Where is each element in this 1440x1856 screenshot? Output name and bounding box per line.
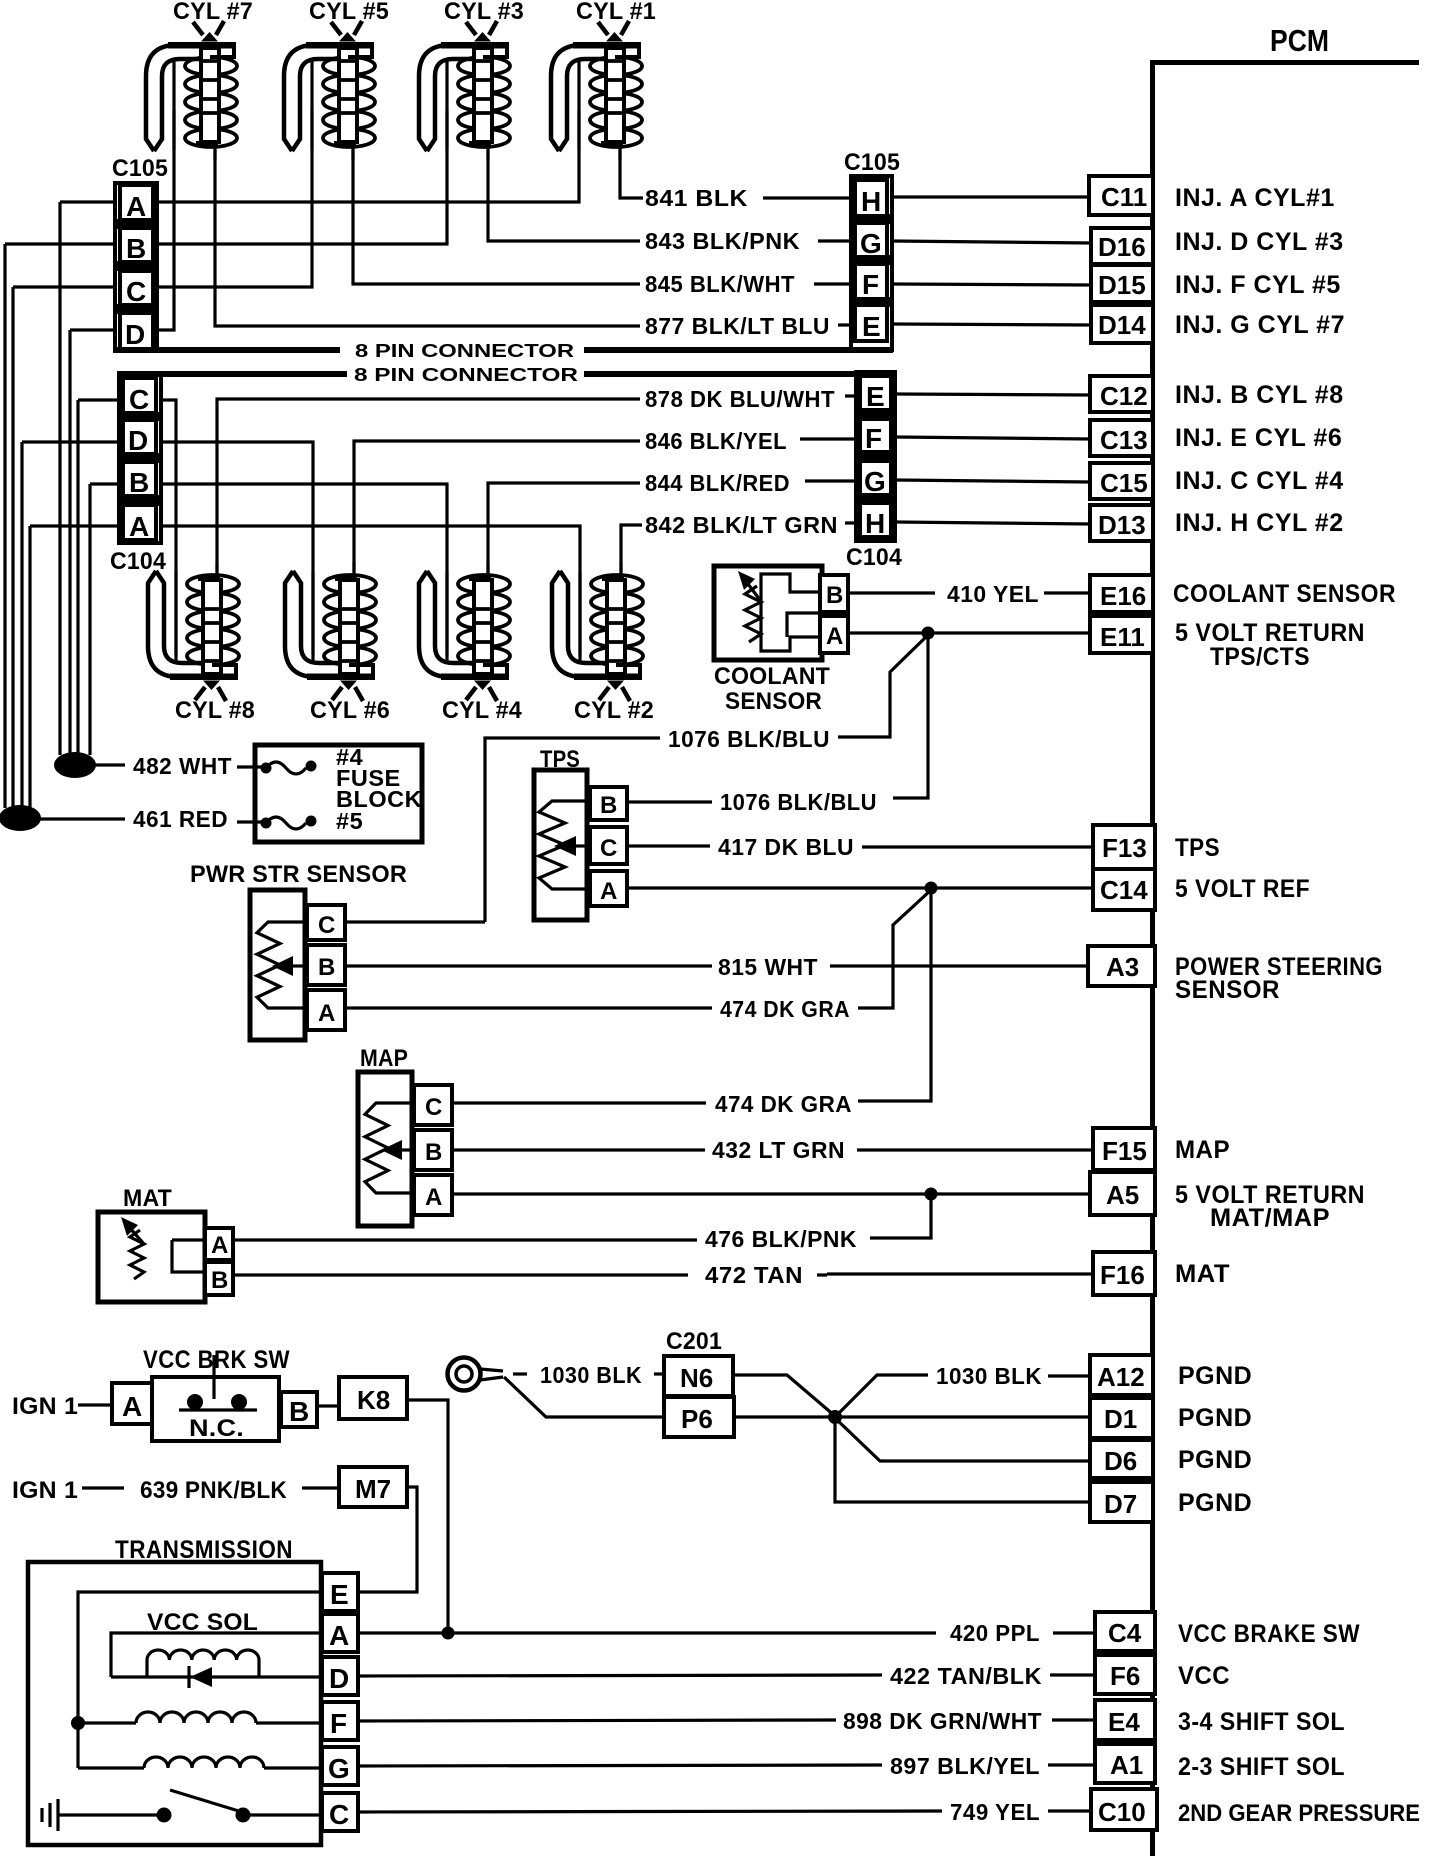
pin C11 [1089,176,1153,215]
svg-text:C11: C11 [1101,182,1147,212]
injector CYL #7 [146,21,237,160]
TPS pin B [590,787,627,820]
svg-text:639 PNK/BLK: 639 PNK/BLK [140,1477,287,1504]
C201 pin N6 [664,1356,733,1396]
svg-text:842 BLK/LT GRN: 842 BLK/LT GRN [645,512,838,538]
svg-text:PWR STR SENSOR: PWR STR SENSOR [190,861,407,888]
svg-text:MAT/MAP: MAT/MAP [1210,1204,1330,1232]
MAP pin B [414,1130,452,1170]
pin D14 [1091,305,1153,343]
switch contact dots [187,1394,203,1410]
svg-text:F: F [330,1708,347,1739]
svg-text:A: A [122,1391,142,1422]
svg-text:C12: C12 [1100,381,1148,411]
wire 461 RED [40,817,125,820]
svg-text:845 BLK/WHT: 845 BLK/WHT [645,271,795,297]
wire 842 BLK/LT GRN [621,523,857,572]
svg-text:#5: #5 [336,808,363,834]
svg-text:IGN 1: IGN 1 [12,1477,78,1504]
svg-text:2ND GEAR PRESSURE: 2ND GEAR PRESSURE [1178,1800,1420,1827]
svg-text:F16: F16 [1100,1260,1145,1290]
wire 841 BLK [620,150,851,198]
MAP sensor box [358,1072,412,1226]
wire C104-E to C12 [895,394,1090,395]
MAT sensor box [98,1212,205,1302]
svg-text:1076 BLK/BLU: 1076 BLK/BLU [668,726,830,752]
C201 pin P6 [664,1397,734,1437]
connector C105 right half [851,176,892,350]
injector CYL #5 [284,21,375,160]
svg-text:G: G [328,1753,350,1784]
pin D6 [1090,1440,1153,1478]
svg-text:B: B [289,1396,309,1427]
pin D16 [1091,228,1153,264]
transmission pin F [322,1702,358,1740]
svg-text:A: A [425,1184,443,1211]
svg-text:B: B [126,233,146,264]
svg-text:8 PIN CONNECTOR: 8 PIN CONNECTOR [354,364,578,385]
PWR STR pin B [307,945,345,985]
transmission pin D [322,1657,358,1695]
wire C105-E to D14 [892,324,1091,325]
wire C105-F to D15 [892,284,1091,285]
wire coolant A to E11 5 volt return [848,631,1090,634]
svg-text:CYL #2: CYL #2 [574,697,654,724]
MAT plug outline [172,1240,205,1272]
injector CYL #6 [285,562,376,701]
wire ring to P6 [504,1377,664,1417]
svg-text:INJ. H CYL #2: INJ. H CYL #2 [1175,509,1344,537]
transmission pin G [322,1747,358,1785]
svg-text:E11: E11 [1100,622,1145,652]
splice ball 482 WHT [54,752,96,778]
svg-text:C: C [425,1094,443,1121]
wire C104-C row to CYL#8 elbow [78,400,176,655]
pin C13 [1090,420,1153,456]
svg-text:N.C.: N.C. [189,1415,244,1442]
switch contact bar [179,1408,257,1411]
coolant sensor pin A [820,616,848,653]
wire C104-D row to CYL#6 elbow [22,442,313,655]
wire PWR STR C to 1076 riser [345,920,485,923]
svg-text:749 YEL: 749 YEL [950,1799,1040,1825]
MAP pin A [414,1175,452,1215]
svg-text:472 TAN: 472 TAN [705,1262,803,1288]
svg-text:D: D [125,319,145,350]
wire 1076 BLK/BLU upper [485,738,660,922]
wire C104-B to upper splice [88,484,91,755]
svg-text:3-4 SHIFT SOL: 3-4 SHIFT SOL [1178,1708,1345,1736]
injector CYL #1 [551,21,642,160]
pin D13 [1090,505,1153,541]
svg-text:C: C [318,912,336,939]
junction dot C14 wire [925,882,938,895]
injector CYL #3 [419,21,510,160]
wire ground to switch [58,1813,164,1816]
svg-text:420 PPL: 420 PPL [950,1620,1040,1646]
PWR STR pin C [307,905,345,940]
svg-text:MAT: MAT [123,1185,172,1212]
svg-text:A: A [826,623,844,650]
pin E16 [1090,575,1153,612]
svg-text:D: D [329,1663,349,1694]
svg-text:A: A [329,1620,349,1651]
8 pin connector row 1 [115,347,893,353]
pin D15 [1091,265,1153,302]
svg-text:B: B [211,1267,229,1294]
coolant sensor box [714,566,822,660]
transmission pin C [322,1793,358,1831]
wire junction to 1030 BLK A12 [835,1375,928,1417]
wire E to left rail [78,1592,322,1768]
wire C104-F to C13 [895,437,1090,439]
svg-text:B: B [826,582,844,609]
wire C104-G to C15 [895,480,1090,482]
svg-text:CYL #5: CYL #5 [309,0,389,25]
wire TPS A / 5 volt ref to C14 [627,886,1093,889]
svg-text:G: G [860,228,882,259]
junction dot A5 wire [925,1188,938,1201]
svg-text:E: E [330,1579,349,1610]
svg-text:D1: D1 [1104,1404,1137,1434]
coolant sensor plug outline [761,574,822,651]
svg-text:422 TAN/BLK: 422 TAN/BLK [890,1663,1042,1689]
svg-text:C104: C104 [846,544,902,571]
pin A5 [1090,1172,1155,1215]
svg-text:8 PIN CONNECTOR: 8 PIN CONNECTOR [355,340,574,361]
svg-text:INJ. C CYL #4: INJ. C CYL #4 [1175,467,1344,495]
svg-text:841 BLK: 841 BLK [645,185,748,211]
pin F13 [1093,825,1155,869]
svg-text:A5: A5 [1106,1180,1139,1210]
transmission pin E [322,1573,358,1611]
splice ball 461 RED [0,805,41,831]
svg-text:410 YEL: 410 YEL [947,581,1039,607]
wire C104-D to lower splice [20,442,23,808]
wire 844 BLK/RED [488,481,857,572]
svg-text:F15: F15 [1102,1136,1147,1166]
wire C104-H to D13 [895,522,1090,524]
wire C105-A row to CYL#1 elbow [60,110,579,202]
svg-text:C4: C4 [1108,1618,1142,1648]
wire 474 DK GRA upper [345,1006,712,1009]
wire IGN1 to A [78,1403,112,1406]
pin A1 [1095,1744,1155,1783]
PWR STR resistor [257,922,303,1008]
wire IGN1 dash [82,1486,124,1489]
svg-text:F13: F13 [1102,833,1147,863]
wire MAP A / 5 volt return to A5 [452,1192,1090,1195]
MAP resistor [365,1103,410,1193]
TPS pin C [590,827,627,864]
pin E11 [1090,616,1153,653]
svg-text:SENSOR: SENSOR [725,688,822,715]
wire 845 BLK/WHT [353,150,851,284]
relay K8 box [339,1377,407,1419]
wire C105-C row to CYL#5 elbow [13,110,312,287]
pin A12 [1090,1355,1153,1395]
wire 846 BLK/YEL [354,439,857,572]
svg-text:PCM: PCM [1270,23,1329,58]
svg-text:INJ. G CYL #7: INJ. G CYL #7 [1175,311,1345,339]
svg-text:D14: D14 [1098,310,1146,340]
wire 482 WHT [95,763,125,766]
fuse #4 [261,761,317,775]
svg-text:1030 BLK: 1030 BLK [936,1363,1042,1389]
2-3 shift solenoid coil [144,1757,264,1768]
svg-text:MAP: MAP [1175,1136,1230,1164]
ground symbol [42,1799,58,1831]
svg-text:846 BLK/YEL: 846 BLK/YEL [645,428,787,454]
svg-text:877 BLK/LT BLU: 877 BLK/LT BLU [645,313,830,339]
PWR STR wiper arrow [272,956,293,976]
svg-text:D7: D7 [1104,1489,1137,1519]
wire 472 TAN [233,1273,688,1276]
VCC BRK SW pin A [112,1383,152,1424]
svg-text:B: B [318,954,336,981]
wire to F coil [78,1721,136,1724]
svg-text:G: G [864,466,886,497]
VCC SOL coil [147,1650,259,1677]
svg-text:N6: N6 [680,1363,713,1393]
coolant sensor pin B [820,575,848,612]
svg-text:K8: K8 [357,1385,390,1415]
TPS box [534,770,587,920]
transmission box [28,1562,321,1845]
svg-text:C: C [126,276,146,307]
junction dot E11 wire [922,627,935,640]
svg-text:897 BLK/YEL: 897 BLK/YEL [890,1753,1040,1779]
svg-text:E: E [866,381,885,412]
svg-text:417 DK BLU: 417 DK BLU [718,834,854,860]
wire junction to D6 [835,1418,1090,1461]
svg-text:C: C [600,835,618,862]
wire junction to D7 [835,1417,1090,1502]
PCM boundary [1150,60,1419,1856]
wire C104-A to lower splice [28,526,31,808]
svg-text:INJ. F CYL #5: INJ. F CYL #5 [1175,271,1341,299]
svg-text:P6: P6 [681,1404,713,1434]
wire A to solenoid loop [111,1633,322,1677]
svg-text:MAP: MAP [360,1045,408,1072]
svg-text:C10: C10 [1098,1797,1146,1827]
svg-text:VCC BRK SW: VCC BRK SW [143,1346,290,1374]
wire 877 BLK/LT BLU [215,150,851,326]
svg-text:F: F [862,269,879,300]
svg-text:A: A [129,511,149,542]
svg-text:1030 BLK: 1030 BLK [540,1362,642,1388]
MAP wiper arrow [381,1140,402,1160]
svg-text:CYL #3: CYL #3 [444,0,524,25]
transmission pin A [322,1614,358,1652]
MAT pin A [205,1228,233,1260]
wire C105-D to upper splice [68,330,71,755]
wire 843 BLK/PNK [488,150,851,241]
svg-text:CYL #6: CYL #6 [310,697,390,724]
svg-text:CYL #7: CYL #7 [173,0,253,25]
svg-text:A: A [126,191,146,222]
svg-text:D13: D13 [1098,510,1146,540]
svg-text:1076 BLK/BLU: 1076 BLK/BLU [720,789,877,815]
connector C105 left half [115,183,157,351]
wire 878 DK BLU/WHT [217,396,857,572]
wire N6 to ground junction [733,1375,835,1416]
svg-text:A12: A12 [1097,1362,1145,1392]
svg-text:474 DK GRA: 474 DK GRA [720,996,850,1022]
pin F15 [1093,1128,1155,1170]
svg-text:461 RED: 461 RED [133,806,228,832]
wire ring to 1030 BLK N6 [513,1372,527,1375]
svg-text:A: A [318,1000,336,1027]
2nd gear switch contact dots [157,1808,172,1823]
svg-text:COOLANT: COOLANT [714,663,830,690]
svg-text:COOLANT SENSOR: COOLANT SENSOR [1173,580,1396,608]
pin C10 [1091,1789,1157,1830]
svg-text:TPS: TPS [1175,834,1220,862]
svg-text:A1: A1 [1110,1750,1143,1780]
wire C105-H to C11 [892,195,1089,198]
svg-text:A: A [211,1232,229,1259]
pin D7 [1090,1482,1153,1522]
8 pin connector row 2 [119,371,893,377]
MAT thermistor [130,1230,144,1279]
injector CYL #4 [419,562,510,701]
injector CYL #2 [552,562,643,701]
svg-text:E: E [862,311,881,342]
pin E4 [1095,1700,1155,1740]
relay M7 box [339,1467,407,1507]
svg-text:B: B [425,1139,443,1166]
svg-text:PGND: PGND [1178,1404,1252,1432]
PCM pin function labels [1173,184,1420,1827]
PWR STR sensor box [250,890,305,1040]
wire 897 BLK/YEL to A1 [358,1765,882,1766]
wire C105-B row to CYL#3 elbow [5,110,447,244]
pin C14 [1093,869,1155,910]
MAP pin C [414,1085,452,1125]
svg-text:482 WHT: 482 WHT [133,753,232,779]
svg-text:SENSOR: SENSOR [1175,976,1280,1004]
connector C104 left half [119,373,161,543]
wire C104-C to upper splice [76,400,79,755]
svg-text:432 LT GRN: 432 LT GRN [712,1137,845,1163]
svg-text:M7: M7 [355,1474,391,1504]
solenoid bottom rail with diode to D [111,1675,322,1678]
wire C104-B row to CYL#4 elbow [90,484,447,655]
svg-text:844 BLK/RED: 844 BLK/RED [645,470,790,496]
svg-text:C105: C105 [844,149,900,176]
wire C105-A to upper splice [58,202,61,755]
wire 1076 BLK/BLU lower [893,633,928,798]
svg-text:D6: D6 [1104,1446,1137,1476]
pin C15 [1090,463,1153,499]
svg-text:474 DK GRA: 474 DK GRA [715,1091,852,1117]
svg-text:F6: F6 [1110,1661,1140,1691]
PCM pin boxes column [1088,176,1157,1830]
svg-text:843 BLK/PNK: 843 BLK/PNK [645,228,800,254]
wire 432 LT GRN [452,1148,705,1151]
VCC BRK SW switch box [152,1377,279,1441]
fuse block box [255,745,422,842]
svg-text:B: B [129,467,149,498]
svg-text:IGN 1: IGN 1 [12,1393,78,1420]
MAT pin B [205,1262,233,1295]
TPS wiper arrow [554,836,576,856]
wire to G coil [78,1766,144,1769]
svg-text:INJ. E CYL #6: INJ. E CYL #6 [1175,424,1342,452]
svg-text:D16: D16 [1098,232,1146,262]
svg-text:INJ. B CYL #8: INJ. B CYL #8 [1175,381,1344,409]
wire 476 BLK/PNK [870,1194,931,1238]
wire C105-C to lower splice [11,287,14,808]
svg-text:CYL #8: CYL #8 [175,697,255,724]
wire 420 PPL to C4 [358,1631,936,1634]
switch actuator tick [212,1355,215,1399]
svg-text:2-3 SHIFT SOL: 2-3 SHIFT SOL [1178,1753,1345,1781]
pin F6 [1095,1655,1155,1694]
pin C4 [1095,1612,1155,1651]
PWR STR pin A [307,990,345,1030]
connector C104 right half [856,372,895,541]
svg-text:C13: C13 [1100,425,1148,455]
svg-text:F: F [865,423,882,454]
wire 749 YEL to C10 [358,1811,942,1812]
svg-text:C15: C15 [1100,468,1148,498]
svg-text:C201: C201 [666,1328,722,1355]
svg-text:878 DK BLU/WHT: 878 DK BLU/WHT [645,386,835,412]
wire 422 TAN/BLK to F6 [358,1675,882,1676]
injector CYL #8 [148,562,239,701]
svg-text:H: H [865,508,885,539]
fuse #5 [261,816,317,830]
coolant sensor thermistor [745,586,761,642]
svg-text:815 WHT: 815 WHT [718,954,818,980]
wire C104-A row to CYL#2 elbow [30,526,580,655]
svg-text:VCC BRAKE SW: VCC BRAKE SW [1178,1620,1360,1648]
VCC BRK SW pin B [281,1392,317,1427]
svg-text:PGND: PGND [1178,1489,1252,1517]
svg-text:PGND: PGND [1178,1362,1252,1390]
wire C105-G to D16 [892,241,1091,243]
pin C12 [1090,376,1153,412]
junction dot A row [442,1627,455,1640]
TPS resistor [539,801,586,889]
svg-text:A: A [600,878,618,905]
ring terminal ground lug [448,1358,481,1391]
svg-text:A3: A3 [1106,952,1139,982]
svg-text:C: C [129,384,149,415]
pin A3 [1088,946,1155,986]
pin F16 [1093,1252,1155,1295]
TPS pin A [590,871,627,906]
wire C105-D row to CYL#7 elbow [70,110,174,330]
svg-text:PGND: PGND [1178,1446,1252,1474]
wire 815 WHT [345,964,712,967]
svg-text:5 VOLT REF: 5 VOLT REF [1175,875,1310,903]
wire 417 DK BLU [627,844,710,847]
svg-text:CYL #1: CYL #1 [576,0,656,25]
svg-text:D15: D15 [1098,270,1146,300]
svg-text:E4: E4 [1108,1707,1140,1737]
svg-text:476 BLK/PNK: 476 BLK/PNK [705,1226,857,1252]
svg-text:H: H [861,186,881,217]
wire 410 YEL [848,591,935,594]
svg-text:CYL #4: CYL #4 [442,697,522,724]
3-4 shift solenoid coil [136,1712,256,1723]
2nd gear switch arm [170,1790,242,1812]
junction dot on rail at F row [71,1716,85,1730]
wire C105-B to lower splice [3,244,6,808]
